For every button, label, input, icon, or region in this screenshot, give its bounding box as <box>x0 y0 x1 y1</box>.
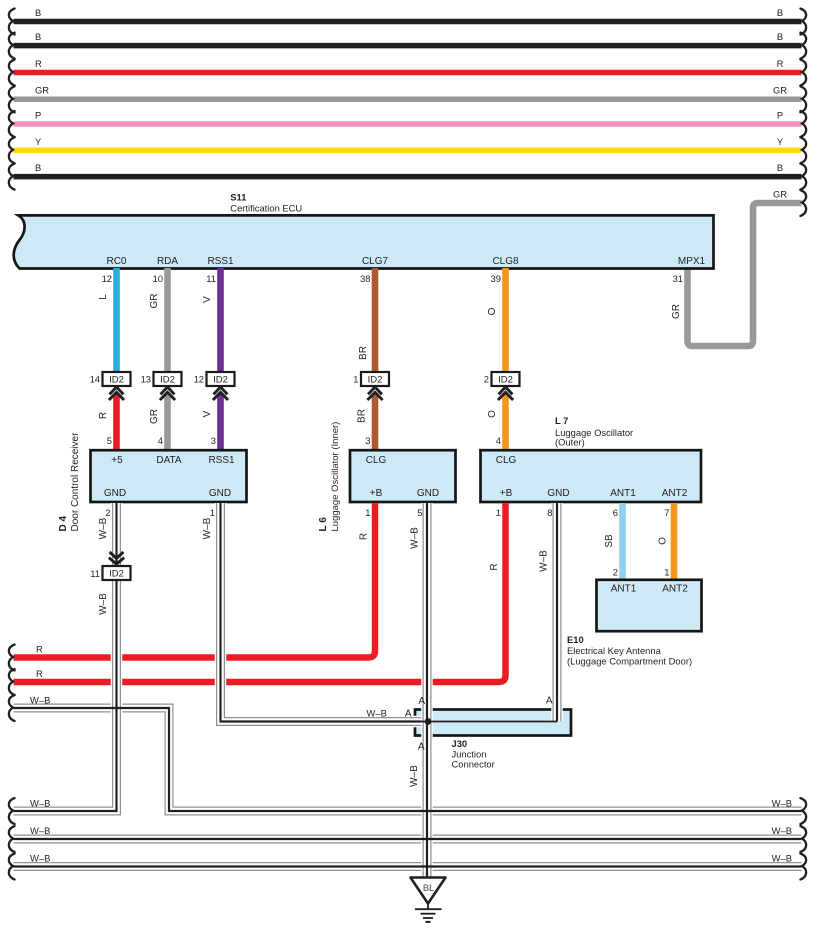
wire break squiggles right <box>800 9 806 880</box>
svg-text:W–B: W–B <box>98 517 109 539</box>
wire bus B3 <box>14 162 802 177</box>
wire bus Y <box>14 136 802 150</box>
svg-text:Luggage Oscillator (Inner): Luggage Oscillator (Inner) <box>330 422 341 532</box>
pin numbers below D4 L6 L7 <box>105 507 669 518</box>
svg-text:B: B <box>777 31 783 42</box>
svg-text:CLG8: CLG8 <box>492 256 519 267</box>
svg-text:CLG: CLG <box>366 455 387 466</box>
svg-text:S11: S11 <box>230 192 246 203</box>
svg-text:7: 7 <box>664 507 669 518</box>
svg-text:W–B: W–B <box>30 853 50 864</box>
svg-text:O: O <box>487 307 498 315</box>
node A labels at J30 <box>367 696 553 753</box>
svg-text:RSS1: RSS1 <box>207 256 234 267</box>
label J30 junction connector <box>452 738 495 770</box>
svg-text:W–B: W–B <box>409 765 420 787</box>
svg-text:W–B: W–B <box>772 798 792 809</box>
svg-text:L 6: L 6 <box>318 517 329 532</box>
svg-text:W–B: W–B <box>772 853 792 864</box>
oscillator L6 box <box>318 422 456 532</box>
svg-text:BL: BL <box>423 883 434 893</box>
svg-text:+B: +B <box>500 488 513 499</box>
connector ID2 pin11 <box>90 552 130 580</box>
svg-text:Electrical Key Antenna: Electrical Key Antenna <box>567 645 662 656</box>
svg-text:MPX1: MPX1 <box>678 256 706 267</box>
svg-text:1: 1 <box>353 374 358 385</box>
svg-text:5: 5 <box>417 507 422 518</box>
wire W-B D4 GND pin2 via ID2 pin11 to left <box>14 503 117 811</box>
ECU S11 box <box>14 192 714 285</box>
J30 internal bus and junction node A <box>418 718 557 725</box>
svg-text:ANT1: ANT1 <box>611 584 637 595</box>
connector ID2 pin1 <box>353 372 389 400</box>
svg-text:+B: +B <box>370 488 383 499</box>
wire bus B2 <box>14 31 802 46</box>
svg-text:ANT2: ANT2 <box>662 488 688 499</box>
svg-text:P: P <box>35 110 41 121</box>
svg-text:R: R <box>36 668 43 679</box>
svg-text:W–B: W–B <box>772 825 792 836</box>
svg-text:GR: GR <box>35 85 49 96</box>
svg-text:B: B <box>35 7 41 18</box>
svg-text:GR: GR <box>149 294 160 309</box>
svg-text:A: A <box>546 696 553 707</box>
svg-text:(Outer): (Outer) <box>555 437 585 448</box>
svg-text:31: 31 <box>673 273 683 284</box>
wire W-B L6 GND through J30 to ground <box>409 503 427 879</box>
svg-text:R: R <box>489 563 500 570</box>
wire W-B full width (y839) <box>14 838 802 840</box>
svg-text:GR: GR <box>773 189 787 200</box>
svg-text:D 4: D 4 <box>58 516 69 532</box>
svg-text:A: A <box>418 696 425 707</box>
svg-text:ANT1: ANT1 <box>610 488 636 499</box>
wire O ID2 to L7 CLG <box>487 394 506 451</box>
svg-text:RDA: RDA <box>157 256 178 267</box>
connector ID2 pin13 <box>141 372 182 400</box>
wire V RSS1 pin11 <box>202 268 221 373</box>
svg-text:2: 2 <box>613 567 618 578</box>
wire bus P <box>14 110 802 125</box>
svg-text:4: 4 <box>496 435 501 446</box>
svg-text:Door Control Receiver: Door Control Receiver <box>70 432 81 532</box>
labels W-B right edge <box>772 798 792 864</box>
wire W-B D4 GND pin1 to J30 <box>202 503 428 722</box>
svg-text:2: 2 <box>105 507 110 518</box>
wire V ID2 to D4 RSS1 <box>202 394 221 451</box>
svg-text:ANT2: ANT2 <box>662 584 688 595</box>
svg-text:DATA: DATA <box>156 455 182 466</box>
wire GR RDA pin10 <box>149 268 168 373</box>
junction connector J30 box <box>415 710 571 736</box>
svg-text:Certification ECU: Certification ECU <box>230 203 302 214</box>
svg-text:W–B: W–B <box>202 517 213 539</box>
oscillator L7 box <box>481 415 702 502</box>
svg-text:ID2: ID2 <box>498 375 513 386</box>
svg-text:Connector: Connector <box>452 759 495 770</box>
wire GR ID2 to D4 DATA <box>149 394 168 451</box>
wire O CLG8 pin39 <box>487 268 506 373</box>
wire SB L7 ANT1 to E10 <box>604 503 623 581</box>
svg-text:2: 2 <box>484 374 489 385</box>
svg-text:3: 3 <box>365 435 370 446</box>
svg-text:B: B <box>35 162 41 173</box>
svg-text:+5: +5 <box>111 455 123 466</box>
svg-text:13: 13 <box>141 374 151 385</box>
svg-text:W–B: W–B <box>410 527 421 549</box>
svg-text:W–B: W–B <box>98 593 109 615</box>
wire W-B L7 GND to J30 <box>539 503 558 722</box>
svg-text:8: 8 <box>547 507 552 518</box>
svg-text:R: R <box>35 58 42 69</box>
wire break squiggles left <box>9 9 15 880</box>
svg-text:W–B: W–B <box>30 825 50 836</box>
svg-text:GR: GR <box>773 85 787 96</box>
svg-text:GR: GR <box>671 304 682 319</box>
svg-text:GND: GND <box>104 488 126 499</box>
svg-text:GND: GND <box>209 488 231 499</box>
svg-text:B: B <box>777 7 783 18</box>
svg-text:38: 38 <box>360 273 370 284</box>
svg-text:B: B <box>777 162 783 173</box>
svg-text:GND: GND <box>547 488 569 499</box>
svg-text:W–B: W–B <box>539 550 550 572</box>
svg-text:ID2: ID2 <box>160 375 175 386</box>
svg-text:W–B: W–B <box>30 695 50 706</box>
svg-text:CLG7: CLG7 <box>362 256 389 267</box>
svg-text:11: 11 <box>206 273 216 284</box>
wire bus R <box>14 58 802 73</box>
svg-text:L 7: L 7 <box>555 415 568 426</box>
receiver D4 box <box>58 432 247 532</box>
wire O L7 ANT2 to E10 <box>658 503 675 581</box>
svg-text:BR: BR <box>358 346 369 360</box>
svg-text:(Luggage Compartment Door): (Luggage Compartment Door) <box>567 656 692 667</box>
connector ID2 pin2 <box>484 372 520 400</box>
svg-text:R: R <box>359 533 370 540</box>
wire W-B core crossing patches <box>110 708 433 867</box>
svg-text:R: R <box>777 58 784 69</box>
svg-text:12: 12 <box>102 273 112 284</box>
svg-text:5: 5 <box>107 435 112 446</box>
svg-text:10: 10 <box>153 273 163 284</box>
svg-text:14: 14 <box>90 374 100 385</box>
svg-text:RSS1: RSS1 <box>208 455 235 466</box>
wire BR CLG7 pin38 <box>358 268 375 373</box>
svg-text:O: O <box>658 537 669 545</box>
svg-text:O: O <box>487 410 498 418</box>
svg-text:RC0: RC0 <box>106 256 126 267</box>
svg-text:GND: GND <box>417 488 439 499</box>
svg-text:1: 1 <box>496 507 501 518</box>
antenna E10 box <box>567 580 702 667</box>
svg-text:CLG: CLG <box>496 455 517 466</box>
svg-text:V: V <box>202 296 213 303</box>
svg-text:R: R <box>98 412 109 419</box>
svg-text:11: 11 <box>90 568 100 579</box>
wire BR ID2 to L6 CLG <box>357 394 376 451</box>
wire GR from MPX1 to top right <box>671 189 802 347</box>
svg-text:BR: BR <box>357 409 368 423</box>
svg-text:B: B <box>35 31 41 42</box>
svg-text:3: 3 <box>211 435 216 446</box>
svg-text:P: P <box>777 110 783 121</box>
wire bus GR <box>14 85 802 100</box>
svg-text:1: 1 <box>664 567 669 578</box>
connector ID2 pin12 <box>194 372 235 400</box>
wire R ID2 to D4 +5 <box>98 394 117 451</box>
wire W-B full width (y866.5) <box>14 866 802 868</box>
svg-text:39: 39 <box>491 273 501 284</box>
svg-text:12: 12 <box>194 374 204 385</box>
wire L RC0 pin12 <box>98 268 117 373</box>
svg-text:A: A <box>405 709 412 720</box>
svg-text:ID2: ID2 <box>368 375 383 386</box>
labels R and W-B left edge <box>30 644 50 864</box>
svg-text:W–B: W–B <box>367 708 387 719</box>
svg-text:1: 1 <box>365 507 370 518</box>
svg-text:L: L <box>98 294 109 300</box>
svg-text:ID2: ID2 <box>109 375 124 386</box>
svg-text:SB: SB <box>604 534 615 548</box>
svg-text:V: V <box>202 410 213 417</box>
svg-text:R: R <box>36 644 43 655</box>
wire R from L6 +B to left <box>14 503 376 658</box>
svg-text:W–B: W–B <box>30 798 50 809</box>
wire W-B left via corner to right (y708-811) <box>14 708 802 811</box>
svg-text:6: 6 <box>613 507 618 518</box>
svg-text:E10: E10 <box>567 634 584 645</box>
svg-text:GR: GR <box>149 409 160 424</box>
svg-text:Y: Y <box>35 136 42 147</box>
ground symbol BL <box>411 878 446 922</box>
svg-text:4: 4 <box>158 435 163 446</box>
wire R from L7 +B to left <box>14 503 506 682</box>
svg-text:A: A <box>418 742 425 753</box>
svg-text:Y: Y <box>777 136 784 147</box>
svg-text:ID2: ID2 <box>109 569 124 580</box>
svg-text:1: 1 <box>210 507 215 518</box>
svg-text:J30: J30 <box>452 738 468 749</box>
svg-text:ID2: ID2 <box>213 375 228 386</box>
wire bus B1 (top) <box>14 7 802 22</box>
connector ID2 pin14 <box>90 372 131 400</box>
